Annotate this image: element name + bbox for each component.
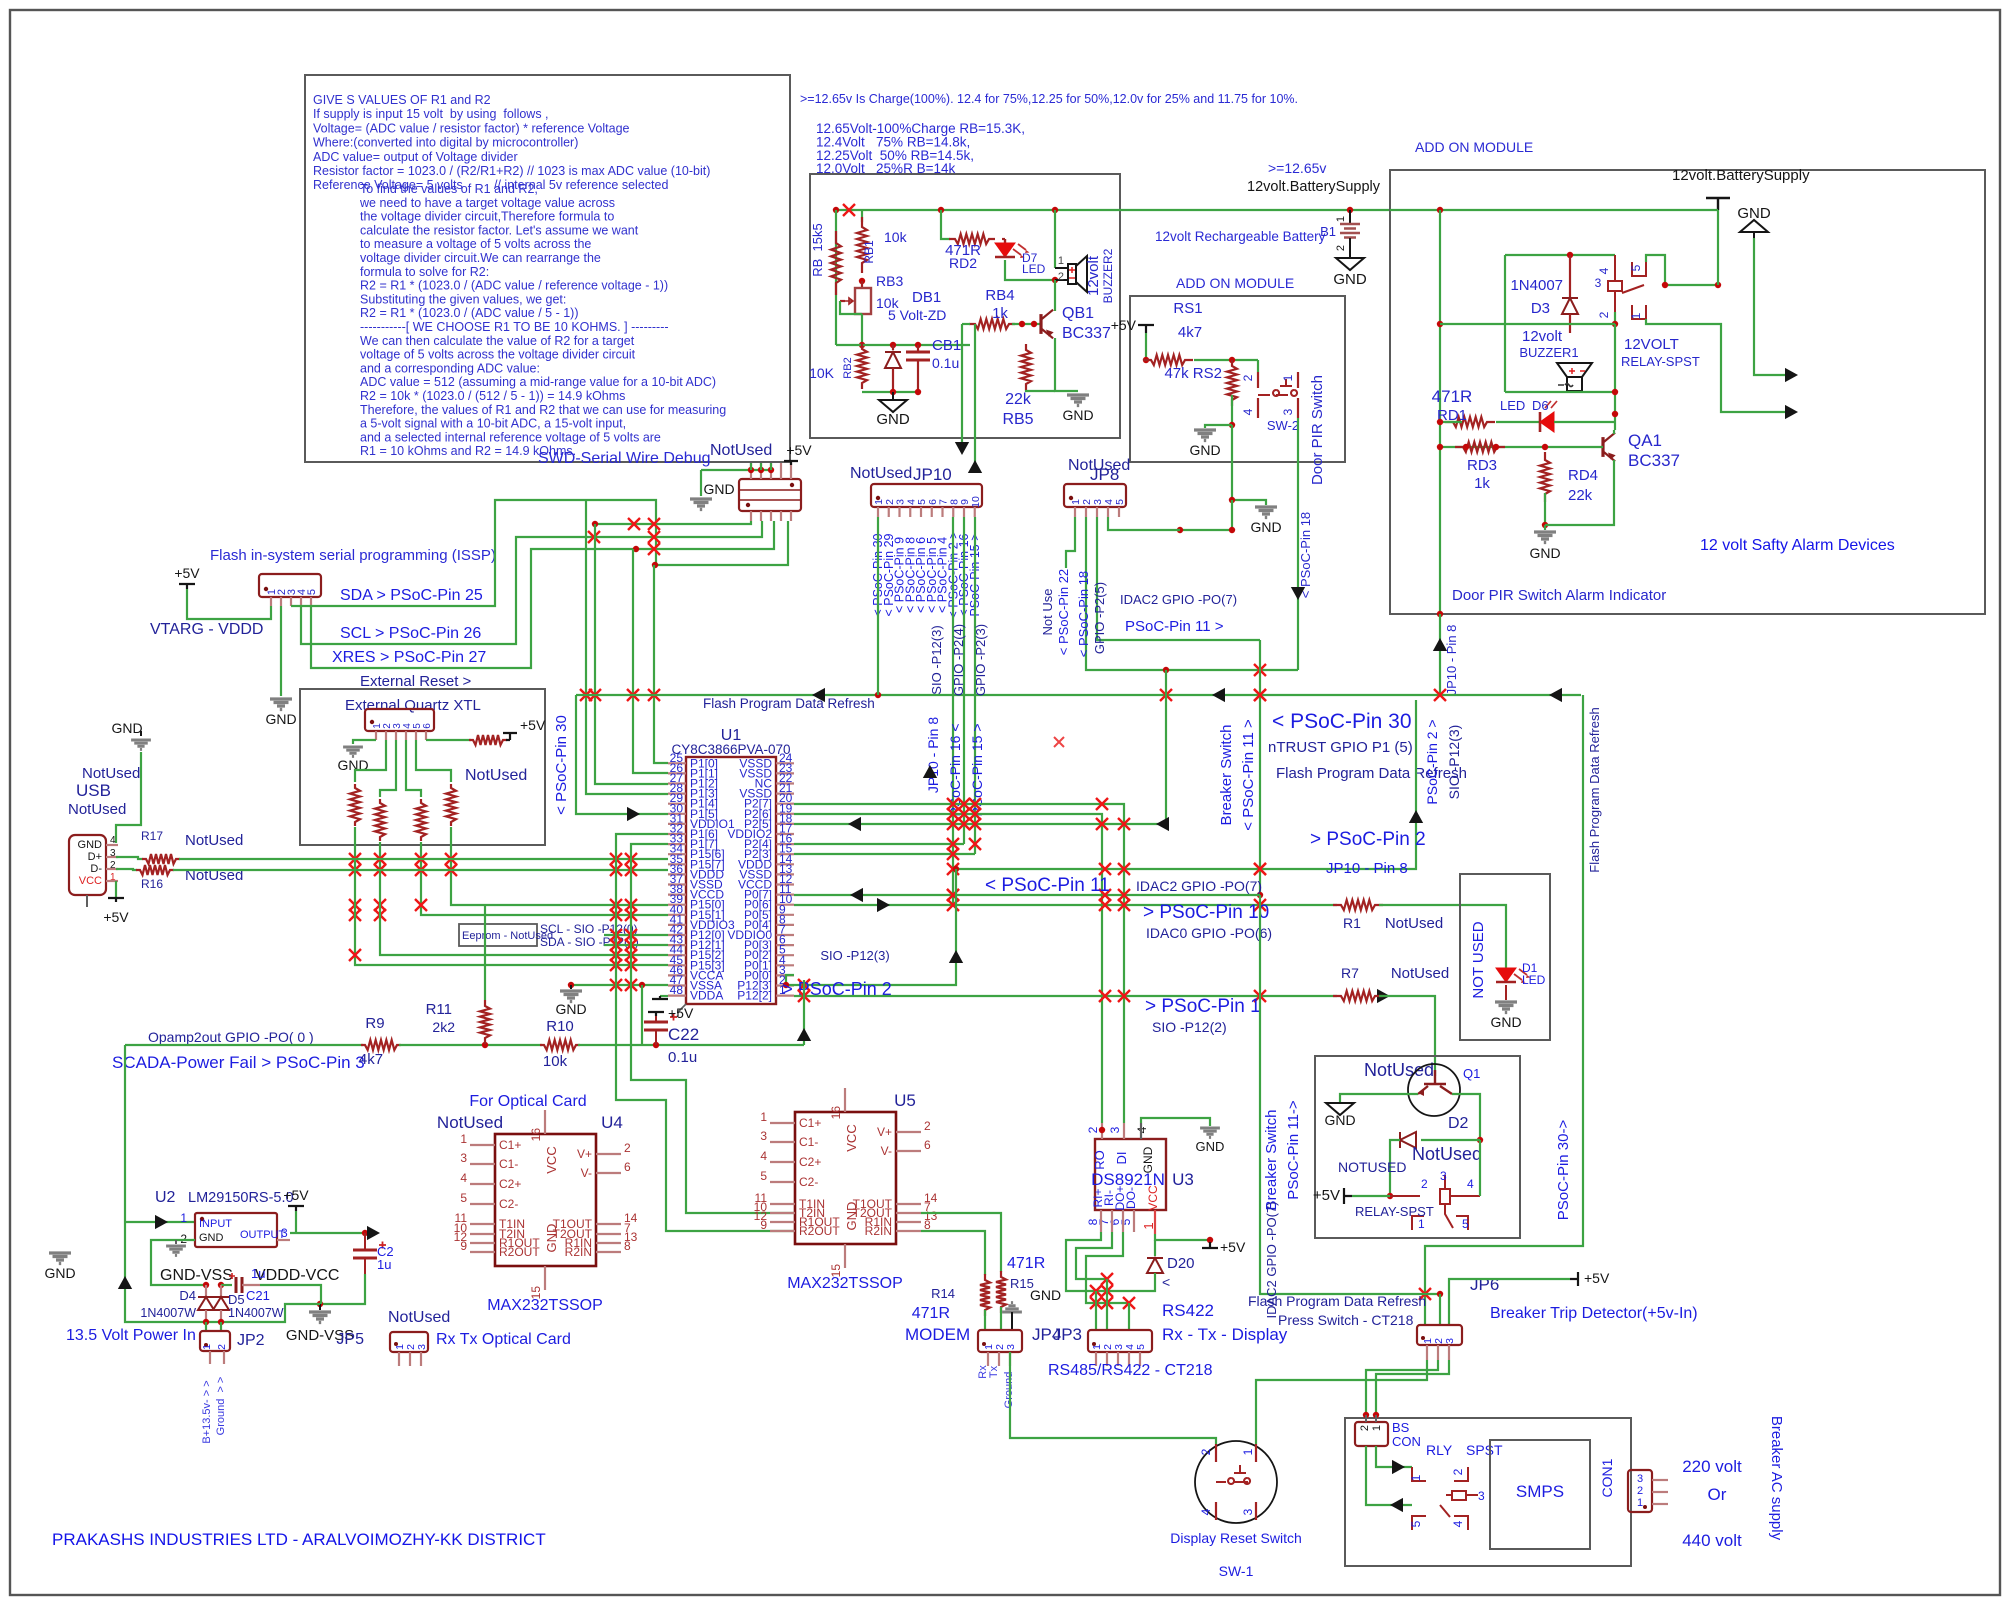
junction D5 bottom: [218, 1319, 224, 1325]
alarm module box: [1390, 170, 1985, 614]
svg-text:2: 2: [1421, 1177, 1428, 1191]
transistor QB1 BC337: [1039, 314, 1042, 334]
wire +5V to JP6 pin3: [1449, 1279, 1570, 1325]
svg-text:SIO -P12(2): SIO -P12(2): [1152, 1019, 1227, 1035]
wire left vertical alarm: [1439, 210, 1441, 614]
wire row pin2 up: [786, 869, 956, 985]
svg-text:1: 1: [760, 1110, 767, 1124]
svg-text:10k: 10k: [884, 229, 908, 245]
wire U5 R2IN to R14: [921, 1231, 985, 1275]
wire JP3 pin2 riser: [1106, 1279, 1108, 1330]
svg-text:RS485/RS422 - CT218: RS485/RS422 - CT218: [1048, 1362, 1213, 1379]
junction bottom DB1: [890, 389, 896, 395]
wire U2 output row: [290, 1232, 365, 1234]
wire SDA: [291, 500, 656, 606]
svg-text:C1+: C1+: [799, 1116, 821, 1130]
junction bottom CB1: [915, 389, 921, 395]
svg-text:NotUsed: NotUsed: [1391, 965, 1449, 982]
SMPS inner box: [1490, 1440, 1590, 1549]
svg-text:VTARG - VDDD: VTARG - VDDD: [150, 621, 263, 638]
svg-text:47k RS2: 47k RS2: [1164, 365, 1222, 382]
wire alarm module exit: [1437, 611, 1443, 617]
svg-text:4: 4: [460, 1171, 467, 1185]
relay pin1 bent lead: [1632, 305, 1646, 319]
svg-text:1N4007W: 1N4007W: [228, 1306, 284, 1320]
junction RB1 bottom: [859, 278, 865, 284]
wire JP6 pin2 to BS CON: [1366, 1360, 1438, 1415]
svg-text:6: 6: [422, 723, 433, 729]
svg-text:VDDA: VDDA: [690, 989, 723, 1003]
ground battery box: [892, 392, 894, 400]
svg-text:3: 3: [1478, 1489, 1485, 1503]
resistor RD1 471R: [1445, 417, 1495, 427]
svg-text:C2+: C2+: [799, 1155, 821, 1169]
wire row pin1 long: [794, 995, 1337, 997]
svg-text:D3: D3: [1531, 300, 1550, 317]
relay pin5 bent lead: [1632, 262, 1646, 276]
svg-text:QB1: QB1: [1062, 305, 1094, 322]
wire row pin18 breaker: [794, 670, 1166, 824]
wire vddio down columns: [616, 834, 795, 1231]
wire USB gnd drop: [140, 731, 142, 736]
svg-text:PSoC-Pin 2 >: PSoC-Pin 2 >: [1424, 719, 1440, 804]
SWD connector: [739, 479, 801, 511]
wire JP8 pin1: [1066, 517, 1075, 568]
connector JP10: [871, 484, 982, 507]
wire scada vertical down: [125, 1045, 206, 1322]
ground QA1: [1544, 525, 1546, 530]
svg-text:471R: 471R: [1007, 1255, 1045, 1272]
junction RD2 branch: [938, 207, 944, 213]
svg-text:< PSoC-Pin 30: < PSoC-Pin 30: [553, 715, 570, 815]
U1 bottom left gnd: [678, 1004, 686, 1016]
junction GND-VSS: [317, 1301, 323, 1307]
svg-text:D2: D2: [1448, 1115, 1469, 1132]
svg-text:We can then calculate the valu: We can then calculate the value of R2 fo…: [360, 334, 635, 348]
svg-text:2: 2: [924, 1119, 931, 1133]
XTL box: [300, 689, 545, 845]
junction D4 bottom: [203, 1319, 209, 1325]
svg-text:GND: GND: [703, 481, 734, 497]
wire mid rail drop: [969, 344, 971, 346]
resistor RB2 10K: [857, 343, 867, 389]
svg-text:0.1u: 0.1u: [932, 355, 959, 371]
svg-text:GND: GND: [199, 1232, 224, 1244]
svg-text:1: 1: [1418, 1217, 1425, 1231]
relay contacts Q1 box: [1412, 1204, 1468, 1230]
svg-text:4: 4: [1597, 267, 1611, 274]
SMPS outer box: [1345, 1418, 1631, 1566]
power +5V SWD: [784, 461, 798, 465]
wire supply drop: [1717, 210, 1719, 285]
svg-text:V-: V-: [881, 1144, 892, 1158]
svg-text:2: 2: [1058, 271, 1064, 283]
switch SW-1 contacts: [1216, 1444, 1256, 1520]
svg-text:< PSoC-Pin 30: < PSoC-Pin 30: [1272, 710, 1412, 733]
svg-text:V-: V-: [581, 1166, 592, 1180]
diode D3 1N4007: [1569, 255, 1571, 298]
svg-text:NotUsed: NotUsed: [388, 1309, 450, 1326]
svg-text:ADC value= output of Voltage d: ADC value= output of Voltage divider: [313, 150, 518, 164]
svg-text:NOT USED: NOT USED: [1470, 921, 1487, 998]
junction U3 RO: [1099, 1127, 1105, 1133]
connector BS CON: [1355, 1422, 1388, 1446]
svg-text:R2 = R1 * (1023.0 / (ADC value: R2 = R1 * (1023.0 / (ADC value / 5 - 1)): [360, 306, 579, 320]
svg-text:Door PIR Switch: Door PIR Switch: [1309, 375, 1326, 485]
svg-text:5: 5: [460, 1191, 467, 1205]
svg-text:+5V: +5V: [1111, 317, 1137, 333]
wire RD2 branch down: [941, 210, 950, 239]
svg-text:1k: 1k: [1474, 475, 1490, 492]
power +5V C22: [648, 1012, 664, 1016]
svg-text:3: 3: [1595, 276, 1602, 290]
ground QB1: [1067, 395, 1089, 406]
wire QA1 collector riser: [1614, 324, 1616, 430]
ground PIR: [1205, 425, 1232, 428]
svg-text:< PSoC-Pin 18: < PSoC-Pin 18: [1076, 571, 1091, 657]
svg-text:NotUsed: NotUsed: [68, 801, 126, 818]
wire box exit down left: [974, 323, 976, 325]
wire vertical to pin26: [633, 549, 668, 773]
svg-text:SMPS: SMPS: [1516, 1482, 1564, 1501]
USB connector: [69, 835, 106, 895]
svg-text:RD4: RD4: [1568, 467, 1598, 484]
svg-text:Display Reset Switch: Display Reset Switch: [1170, 1530, 1302, 1546]
svg-text:C2-: C2-: [799, 1175, 818, 1189]
svg-text:R17: R17: [141, 829, 163, 843]
wire JP3 pin4 riser: [1128, 1303, 1130, 1330]
svg-text:2: 2: [216, 1344, 228, 1350]
wire row869 psoc pin2 to jp10pin8: [956, 700, 1416, 869]
svg-text:Flash Program Data Refresh: Flash Program Data Refresh: [1248, 1293, 1426, 1309]
svg-text:GND: GND: [1062, 407, 1093, 423]
wire JP6 pin2 up: [1439, 1294, 1441, 1325]
svg-text:GND: GND: [544, 1224, 559, 1253]
svg-text:+5V: +5V: [174, 565, 200, 581]
wire +5V to RS1: [1145, 333, 1147, 360]
wire QB1 collector: [1054, 280, 1056, 311]
svg-text:VDDD-VCC: VDDD-VCC: [255, 1267, 339, 1284]
svg-text:< PSoC-Pin 18: < PSoC-Pin 18: [1298, 512, 1313, 598]
wire RB4 left feed: [962, 323, 970, 325]
svg-text:3: 3: [1281, 408, 1295, 415]
wire D7 to buzzer: [1005, 260, 1055, 280]
svg-text:SIO -P12(3): SIO -P12(3): [1446, 725, 1462, 800]
wire U3 DO+ loop: [1086, 1232, 1129, 1303]
svg-text:ADC value = 512 (assuming a mi: ADC value = 512 (assuming a mid-range va…: [360, 375, 716, 389]
wire mid rail: [836, 344, 970, 346]
wire R10 to C22 node: [578, 1044, 804, 1046]
wire RB3 bottom to mid rail: [861, 314, 863, 345]
svg-text:BC337: BC337: [1062, 325, 1111, 342]
switch SW-1 circle: [1195, 1441, 1277, 1523]
svg-text:RELAY-SPST: RELAY-SPST: [1355, 1204, 1434, 1219]
power +5V USB: [115, 881, 117, 898]
svg-text:RS1: RS1: [1173, 300, 1202, 317]
svg-text:BS: BS: [1392, 1420, 1410, 1435]
svg-text:LM29150RS-5.0: LM29150RS-5.0: [188, 1190, 294, 1206]
svg-text:1k: 1k: [992, 305, 1008, 322]
Q1 notused box: [1315, 1056, 1520, 1238]
svg-text:3: 3: [416, 1344, 428, 1350]
svg-text:1: 1: [1371, 1425, 1383, 1431]
ISSP connector: [259, 574, 321, 597]
IC U4 MAX232TSSOP: [495, 1134, 596, 1266]
svg-text:SCL > PSoC-Pin 26: SCL > PSoC-Pin 26: [340, 625, 481, 642]
transistor Q1: [1418, 1070, 1452, 1094]
svg-text:22k: 22k: [1568, 487, 1593, 504]
svg-text:V+: V+: [577, 1147, 592, 1161]
svg-text:GND: GND: [1250, 519, 1281, 535]
wire JP8 pin3 idac2: [1097, 517, 1260, 640]
svg-text:Rx - Tx - Display: Rx - Tx - Display: [1162, 1325, 1288, 1344]
wire pin16 row: [794, 843, 964, 845]
svg-text:2: 2: [1086, 1126, 1100, 1133]
svg-text:For Optical Card: For Optical Card: [469, 1093, 586, 1110]
svg-text:R2IN: R2IN: [865, 1224, 892, 1238]
resistor R1 NotUsed: [1333, 900, 1383, 910]
wire U2 gnd down: [151, 1240, 206, 1285]
svg-text:NotUsed: NotUsed: [437, 1113, 503, 1132]
svg-text:to measure a voltage of 5 volt: to measure a voltage of 5 volts across t…: [360, 237, 591, 251]
wire vddio down col2: [631, 844, 795, 1213]
svg-text:3: 3: [1108, 1126, 1122, 1133]
svg-text:SW-1: SW-1: [1219, 1563, 1254, 1579]
svg-text:4: 4: [1467, 1177, 1474, 1191]
diode D5 1N4007W: [220, 1285, 222, 1297]
wire row pin20 to U3 DI: [794, 804, 1124, 1123]
wire row pin11: [794, 894, 1260, 896]
wire pin15 row: [794, 853, 975, 855]
svg-text:PRAKASHS INDUSTRIES LTD - ARAL: PRAKASHS INDUSTRIES LTD - ARALVOIMOZHY-K…: [52, 1530, 546, 1549]
wire SW-2 pin2 drop: [1257, 360, 1259, 372]
svg-text:C1-: C1-: [499, 1157, 518, 1171]
capacitor C21 1u: [236, 1277, 242, 1293]
wire row pin10 idac0: [794, 904, 1337, 906]
wire SCL: [301, 521, 762, 644]
svg-text:22k: 22k: [1005, 391, 1032, 408]
wire battery top rail: [836, 209, 1390, 211]
wire D2 to +5V node: [1390, 1140, 1400, 1196]
svg-text:+5V: +5V: [103, 909, 129, 925]
svg-text:2: 2: [1241, 374, 1255, 381]
resistor RB1 10k: [857, 217, 867, 273]
svg-text:4: 4: [1451, 1520, 1465, 1527]
svg-text:-----------[ WE CHOOSE R1 TO B: -----------[ WE CHOOSE R1 TO BE 10 KOHMS…: [360, 320, 669, 334]
wire R11 top: [484, 905, 486, 1000]
wire XRES: [311, 521, 774, 668]
svg-text:IDAC2 GPIO -PO(7): IDAC2 GPIO -PO(7): [1120, 592, 1237, 607]
svg-text:D6: D6: [1532, 398, 1549, 413]
svg-text:Q1: Q1: [1463, 1066, 1480, 1081]
wire XTL col2 to pin44: [380, 870, 668, 955]
svg-text:GND: GND: [1196, 1139, 1225, 1154]
relay coil Q1 box: [1390, 1195, 1420, 1197]
svg-text:Therefore, the values of R1 an: Therefore, the values of R1 and R2 that …: [360, 403, 726, 417]
svg-text:D5: D5: [228, 1292, 245, 1307]
U5 GND pin15: [844, 1244, 846, 1268]
svg-text:U2: U2: [155, 1189, 176, 1206]
svg-text:MAX232TSSOP: MAX232TSSOP: [787, 1275, 903, 1292]
svg-text:12volt: 12volt: [1522, 328, 1563, 345]
resistor RB 15k5: [831, 231, 841, 295]
svg-text:RB4: RB4: [985, 287, 1014, 304]
svg-text:JP10 - Pin 8: JP10 - Pin 8: [1444, 625, 1459, 696]
svg-text:B+13.5v- > >: B+13.5v- > >: [201, 1380, 213, 1443]
wire D+ row to U1 pin34: [179, 858, 668, 860]
resistor R14 471R: [980, 1274, 990, 1316]
svg-text:Voltage= (ADC value / resistor: Voltage= (ADC value / resistor factor) *…: [313, 121, 630, 135]
svg-text:Breaker Trip Detector(+5v-In): Breaker Trip Detector(+5v-In): [1490, 1305, 1698, 1322]
svg-text:+5V: +5V: [1313, 1187, 1340, 1204]
svg-text:LED: LED: [1500, 398, 1525, 413]
wire U5 T2OUT to R15: [921, 1213, 1001, 1272]
svg-text:Breaker Switch: Breaker Switch: [1263, 1110, 1280, 1211]
svg-text:+5V: +5V: [520, 717, 546, 733]
svg-text:JP8: JP8: [1090, 465, 1119, 484]
resistor R17 NotUsed: [116, 857, 143, 859]
svg-text:D-: D-: [90, 863, 102, 875]
led D1: [1496, 968, 1516, 982]
svg-text:Flash Program Data Refresh: Flash Program Data Refresh: [1587, 707, 1602, 872]
diode D20: [1154, 1240, 1156, 1256]
svg-text:10k: 10k: [543, 1053, 568, 1070]
svg-text:RB2: RB2: [842, 357, 854, 378]
svg-text:RO: RO: [1092, 1150, 1107, 1170]
resistor R15 471R: [996, 1271, 1006, 1313]
wire relay pin2 down: [1614, 301, 1616, 312]
wire SWD row4: [655, 521, 788, 565]
svg-text:Where:(converted into digital: Where:(converted into digital by microco…: [313, 136, 578, 150]
svg-text:R10: R10: [546, 1018, 574, 1035]
svg-text:4k7: 4k7: [359, 1051, 383, 1068]
svg-text:PSoC-Pin 11->: PSoC-Pin 11->: [1285, 1100, 1302, 1200]
wire XTL +5V resistor: [426, 739, 471, 741]
wire pin47 branch down: [641, 985, 643, 1045]
svg-text:12volt: 12volt: [1085, 255, 1102, 296]
ground U2: [175, 1240, 177, 1244]
wire SW2 pin3 long down: [1297, 462, 1299, 670]
svg-text:PSoC-Pin 30->: PSoC-Pin 30->: [1555, 1120, 1572, 1221]
svg-text:1: 1: [1629, 312, 1643, 319]
XTL resistor column 3: [406, 740, 421, 797]
svg-text:1: 1: [1241, 1448, 1255, 1455]
svg-text:JP6: JP6: [1470, 1275, 1499, 1294]
svg-text:ADD ON MODULE: ADD ON MODULE: [1176, 275, 1294, 291]
wire XTL col1 to pin45: [355, 859, 668, 965]
svg-text:3: 3: [1637, 1473, 1643, 1485]
svg-text:2: 2: [624, 1141, 631, 1155]
svg-text:SDA > PSoC-Pin 25: SDA > PSoC-Pin 25: [340, 587, 483, 604]
power +5V U2 output: [288, 1206, 304, 1211]
svg-text:MAX232TSSOP: MAX232TSSOP: [487, 1297, 603, 1314]
svg-text:440 volt: 440 volt: [1682, 1531, 1742, 1550]
svg-text:Door PIR Switch Alarm Indicato: Door PIR Switch Alarm Indicator: [1452, 587, 1666, 604]
svg-text:12volt.BatterySupply: 12volt.BatterySupply: [1672, 167, 1810, 184]
svg-text:SIO -P12(3): SIO -P12(3): [820, 948, 889, 963]
relay RLY coil: [1452, 1491, 1466, 1500]
svg-text:DB1: DB1: [912, 289, 941, 306]
pot RB3 10k: [861, 281, 863, 288]
svg-text:LED: LED: [1022, 262, 1046, 276]
wire BS CON pin1 to relay: [1376, 1446, 1412, 1467]
power +5V JP6: [1570, 1272, 1578, 1286]
svg-text:> PSoC-Pin 2: > PSoC-Pin 2: [1310, 829, 1426, 850]
svg-text:12volt.BatterySupply: 12volt.BatterySupply: [1247, 179, 1381, 195]
svg-text:GND: GND: [111, 720, 142, 736]
svg-text:GIVE S VALUES OF R1 and R2: GIVE S VALUES OF R1 and R2: [313, 93, 491, 107]
svg-text:R2IN: R2IN: [565, 1245, 592, 1259]
svg-text:RD3: RD3: [1467, 457, 1497, 474]
wire relay pin4 up: [1479, 1140, 1481, 1196]
wire PSoC-Pin 11 long vertical: [1259, 640, 1261, 895]
svg-text:+5V: +5V: [786, 442, 812, 458]
svg-text:3: 3: [760, 1129, 767, 1143]
connector JP8: [1064, 484, 1126, 507]
svg-text:D+: D+: [88, 851, 102, 863]
U5 VCC pin16: [844, 1088, 846, 1112]
svg-text:1: 1: [1058, 255, 1064, 267]
svg-text:>=12.65v: >=12.65v: [1268, 160, 1326, 176]
wire scada row: [125, 1044, 363, 1046]
wire SW-2 pin3 down: [1297, 418, 1299, 462]
svg-text:Substituting the given values,: Substituting the given values, we get:: [360, 292, 566, 306]
wire branch to buzzer1 loop: [1440, 323, 1505, 325]
svg-text:External Reset >: External Reset >: [360, 673, 472, 690]
svg-text:DO-: DO-: [1124, 1187, 1138, 1209]
not used box D1: [1460, 874, 1550, 1040]
svg-text:GPIO -P2(5): GPIO -P2(5): [1092, 582, 1107, 654]
svg-text:NOTUSED: NOTUSED: [1338, 1159, 1406, 1175]
XTL connector: [365, 709, 434, 731]
wire bottom rail: [862, 391, 918, 393]
capacitor CB1 0.1u: [917, 345, 919, 352]
wire vertical to pin27: [595, 524, 668, 784]
svg-text:2: 2: [1199, 1448, 1213, 1455]
svg-text:JP2: JP2: [237, 1332, 265, 1349]
wire PIR gnd row: [1232, 500, 1266, 505]
wire anode row: [206, 1304, 320, 1322]
svg-text:R16: R16: [141, 877, 163, 891]
junction mid rail RB2: [859, 342, 865, 348]
svg-text:If supply is input 15 volt by: If supply is input 15 volt by using foll…: [313, 107, 549, 121]
svg-text:Not Use: Not Use: [1040, 589, 1055, 636]
svg-text:voltage divider circuit.We can: voltage divider circuit.We can rearrange…: [360, 251, 601, 265]
junction D4 top: [203, 1282, 209, 1288]
svg-text:3: 3: [1444, 1338, 1456, 1344]
IC U3 DS8921N: [1095, 1139, 1166, 1210]
wire JP2 pin stubs green: [205, 1322, 207, 1332]
battery B1 cell: [1349, 210, 1351, 224]
svg-text:SPST: SPST: [1466, 1442, 1503, 1458]
svg-text:4: 4: [760, 1149, 767, 1163]
power +5V PIR: [1138, 325, 1154, 333]
resistor RB4 1k: [969, 319, 1015, 329]
svg-text:and a selected internal refere: and a selected internal reference voltag…: [360, 430, 661, 444]
svg-text:GND: GND: [876, 411, 910, 428]
connector JP6: [1417, 1325, 1462, 1345]
svg-text:Ground > >: Ground > >: [215, 1377, 227, 1436]
junction JP6 pin2: [1437, 1291, 1443, 1297]
wire cathode row to C21: [221, 1284, 232, 1286]
IC U2 LM29150RS-5.0: [195, 1213, 277, 1247]
svg-text:GND: GND: [1189, 442, 1220, 458]
wire base junctions: [1012, 323, 1041, 325]
wire relay pin1 out: [1646, 319, 1788, 412]
svg-text:GND: GND: [1324, 1112, 1355, 1128]
svg-text:CY8C3866PVA-070: CY8C3866PVA-070: [671, 742, 790, 757]
svg-text:12 volt Safty Alarm Devices: 12 volt Safty Alarm Devices: [1700, 537, 1895, 554]
